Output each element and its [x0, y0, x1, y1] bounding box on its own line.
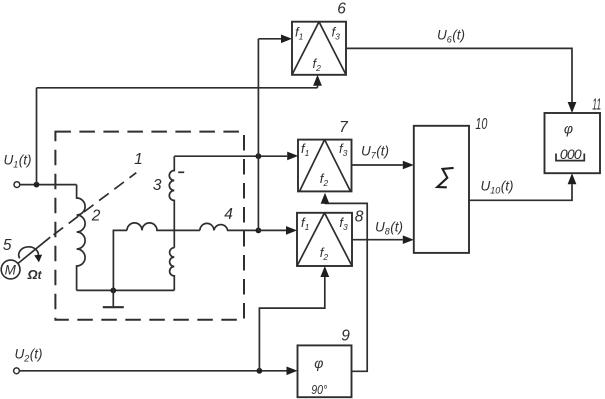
wire U1 top across: [37, 87, 318, 89]
node junction U1: [34, 182, 40, 188]
polarity minus mark: [178, 171, 184, 173]
wire middle branch up: [113, 230, 127, 290]
svg-text:Ωt: Ωt: [27, 267, 43, 282]
wire phase shifter output to block 7 f2: [325, 203, 367, 371]
svg-text:6: 6: [337, 1, 346, 18]
inductor 2: [77, 185, 86, 291]
mixer U7: [298, 140, 352, 192]
wire U7 output: [352, 164, 403, 166]
rotation arrow: [19, 247, 39, 258]
svg-text:7: 7: [339, 119, 349, 136]
svg-text:000: 000: [560, 146, 582, 162]
node junction coil4 bus: [256, 228, 262, 234]
svg-text:1: 1: [134, 151, 143, 168]
wire U6 output: [346, 48, 572, 102]
coil (middle winding): [127, 223, 200, 230]
wire U2: [19, 370, 286, 372]
svg-text:10: 10: [475, 116, 487, 133]
phase shifter 9: [298, 345, 352, 397]
wire vertical bus: [257, 39, 259, 231]
wire coil 3 to bus: [174, 155, 287, 157]
svg-text:φ: φ: [314, 355, 323, 371]
summator 10: [414, 126, 469, 253]
sigma symbol: [437, 168, 453, 187]
inductor 3: [169, 156, 174, 248]
wire U1 up: [36, 88, 38, 185]
wire into block 6 f2: [317, 85, 319, 88]
wire coil 2 bottom: [77, 289, 175, 291]
ground: [112, 290, 114, 306]
svg-text:5: 5: [3, 237, 12, 254]
wire U1 terminal to coil 2: [20, 184, 77, 186]
wire U10 output: [469, 184, 572, 200]
dashed enclosure: [55, 132, 244, 320]
wire U2 branch to block 8 f2: [259, 277, 324, 371]
wire bus to block 6 f1: [258, 38, 281, 40]
node ground junction: [110, 288, 116, 294]
node junction coil3 bus: [256, 153, 262, 159]
mixer U8: [297, 213, 352, 266]
svg-text:8: 8: [355, 209, 364, 226]
svg-text:90°: 90°: [311, 382, 327, 397]
phase indicator 11: [545, 113, 601, 173]
node U1 input terminal: [14, 182, 20, 188]
shaft link solid: [18, 237, 50, 263]
mixer U6: [292, 22, 346, 75]
motor 5: [1, 260, 20, 279]
svg-text:3: 3: [153, 177, 162, 194]
node U2 input terminal: [14, 368, 20, 374]
svg-text:φ: φ: [564, 120, 573, 136]
node junction U2: [257, 368, 263, 374]
svg-text:2: 2: [91, 208, 101, 225]
wire to block 8 f1: [258, 229, 286, 231]
inductor 4: [200, 223, 259, 230]
svg-text:11: 11: [592, 97, 601, 114]
svg-text:4: 4: [224, 206, 233, 223]
svg-text:M: M: [5, 263, 17, 278]
coil (lower winding): [170, 248, 175, 291]
wire U8 output: [352, 239, 403, 241]
shaft link dashed to coil 2: [54, 173, 137, 235]
svg-text:9: 9: [341, 328, 350, 345]
